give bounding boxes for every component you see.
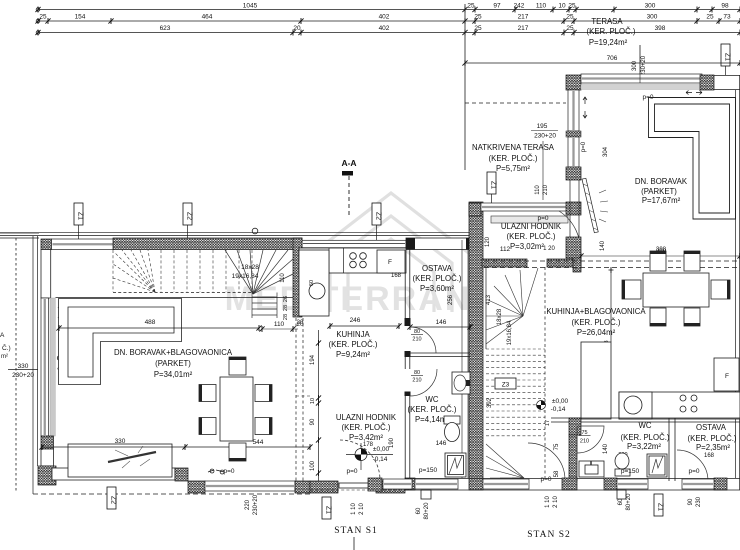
svg-text:623: 623 bbox=[160, 25, 171, 32]
sink circle bbox=[309, 283, 325, 299]
svg-text:KUHINJA: KUHINJA bbox=[336, 330, 370, 339]
svg-text:25: 25 bbox=[474, 14, 482, 21]
dim line x=611 bbox=[610, 268, 612, 342]
small circle node on top wall bbox=[252, 228, 258, 234]
svg-text:(KER. PLOČ.): (KER. PLOČ.) bbox=[342, 423, 391, 432]
svg-text:p=0: p=0 bbox=[581, 141, 587, 152]
svg-text:ULAZNI HODNIK: ULAZNI HODNIK bbox=[336, 413, 397, 422]
arrows S2 window left bbox=[583, 97, 587, 118]
tall unit / fridge S2 bbox=[581, 342, 611, 419]
svg-text:217: 217 bbox=[518, 14, 529, 21]
entry door S1 dashed swing bbox=[340, 440, 380, 480]
door arc ostava bbox=[410, 327, 436, 353]
small exterior stub bbox=[421, 490, 431, 499]
bottom wall hodnik S1 bbox=[310, 481, 338, 493]
svg-text:58: 58 bbox=[554, 470, 560, 477]
svg-text:1 20: 1 20 bbox=[543, 246, 555, 252]
door arc hodnik S2 bbox=[559, 211, 580, 256]
svg-text:256: 256 bbox=[448, 294, 454, 305]
svg-text:246: 246 bbox=[350, 317, 361, 324]
svg-text:25: 25 bbox=[39, 14, 47, 21]
neighbour wall stub top-left bbox=[0, 232, 39, 234]
svg-text:80: 80 bbox=[414, 370, 420, 376]
svg-text:(KER. PLOČ.): (KER. PLOČ.) bbox=[329, 340, 378, 349]
wall S1 left mid block bbox=[41, 436, 54, 449]
svg-text:26: 26 bbox=[283, 296, 289, 302]
svg-text:210: 210 bbox=[412, 378, 421, 384]
svg-text:DN. BORAVAK: DN. BORAVAK bbox=[635, 177, 688, 186]
svg-text:A: A bbox=[0, 332, 5, 339]
lintel label Z1 (left window) bbox=[74, 203, 84, 225]
svg-text:p=0: p=0 bbox=[346, 468, 357, 475]
svg-text:112: 112 bbox=[500, 246, 511, 253]
staircase S1 treads bbox=[113, 250, 252, 292]
window Z1 in S1 top wall bbox=[52, 239, 115, 250]
svg-text:p=0: p=0 bbox=[223, 468, 234, 475]
svg-text:398: 398 bbox=[656, 247, 667, 253]
svg-text:304: 304 bbox=[603, 146, 609, 157]
svg-text:90: 90 bbox=[310, 418, 316, 425]
washbasin S1 bbox=[452, 372, 470, 394]
svg-text:146: 146 bbox=[436, 440, 447, 447]
svg-text:Z3: Z3 bbox=[502, 382, 510, 389]
svg-text:Z2: Z2 bbox=[110, 496, 117, 504]
dimension line row 2 (25 154 464 402 / 25 217 25 300 25 73) bbox=[38, 20, 740, 22]
svg-text:154: 154 bbox=[75, 14, 86, 21]
lintel label Z2 bbox=[183, 203, 193, 225]
svg-text:19x16,84: 19x16,84 bbox=[232, 273, 259, 280]
svg-text:P=17,67m²: P=17,67m² bbox=[642, 196, 681, 205]
gallery edge dashed lines bbox=[484, 260, 740, 262]
svg-text:p=150: p=150 bbox=[621, 468, 640, 475]
svg-text:p=0: p=0 bbox=[540, 476, 551, 483]
svg-text:464: 464 bbox=[202, 14, 213, 21]
svg-text:140: 140 bbox=[600, 240, 606, 251]
dim 146 ostava bbox=[410, 326, 470, 328]
svg-text:230+20: 230+20 bbox=[534, 133, 556, 140]
svg-text:-0,14: -0,14 bbox=[551, 406, 566, 413]
window S2 top bbox=[581, 74, 702, 83]
svg-text:488: 488 bbox=[145, 319, 156, 326]
svg-text:413: 413 bbox=[486, 294, 492, 305]
entry door S2 frame bbox=[569, 180, 571, 237]
wall lines to right edge bbox=[714, 75, 740, 77]
svg-text:Č.): Č.) bbox=[2, 343, 11, 352]
hob S2 bbox=[680, 395, 686, 401]
svg-text:80: 80 bbox=[414, 329, 420, 335]
svg-text:330: 330 bbox=[18, 363, 29, 370]
svg-text:P=3,60m²: P=3,60m² bbox=[420, 284, 454, 293]
kitchen counter left column bbox=[299, 250, 329, 316]
insulation strip beside window bbox=[50, 298, 55, 436]
level marker S2 bbox=[537, 401, 546, 410]
window S1 bottom bbox=[205, 481, 295, 491]
staircase S1 winder fan left (dashed) bbox=[113, 250, 155, 292]
svg-text:P=2,35m²: P=2,35m² bbox=[696, 443, 730, 452]
svg-text:KUHINJA+BLAGOVAONICA: KUHINJA+BLAGOVAONICA bbox=[546, 307, 646, 316]
washbasin S2 bbox=[579, 461, 604, 477]
svg-text:1045: 1045 bbox=[243, 3, 258, 10]
svg-text:(KER. PLOČ.): (KER. PLOČ.) bbox=[587, 27, 636, 36]
svg-text:P=3,22m²: P=3,22m² bbox=[627, 442, 661, 451]
door swing p=0 living (arrows) bbox=[208, 469, 224, 474]
svg-text:110: 110 bbox=[535, 185, 541, 195]
party wall S1|S2 bbox=[469, 202, 483, 490]
svg-text:60: 60 bbox=[309, 280, 315, 286]
shaft lines S1 east bbox=[461, 240, 463, 478]
svg-text:392: 392 bbox=[487, 397, 493, 408]
right edge wall lines bbox=[735, 90, 737, 478]
svg-text:2 10: 2 10 bbox=[553, 496, 559, 508]
svg-text:P=34,01m²: P=34,01m² bbox=[154, 370, 193, 379]
svg-text:544: 544 bbox=[253, 439, 264, 446]
svg-text:p=0: p=0 bbox=[537, 215, 548, 222]
sink unit bbox=[619, 392, 652, 419]
svg-text:P=5,75m²: P=5,75m² bbox=[496, 164, 530, 173]
sofa L S2 bbox=[649, 98, 736, 220]
svg-text:P=26,04m²: P=26,04m² bbox=[577, 328, 616, 337]
svg-text:2 10: 2 10 bbox=[359, 503, 365, 515]
svg-text:110: 110 bbox=[280, 273, 286, 283]
wall block S2 left bbox=[566, 167, 581, 180]
svg-text:±0,00: ±0,00 bbox=[373, 446, 390, 453]
lintel label Z2 (kitchen) bbox=[372, 203, 382, 225]
svg-text:WC: WC bbox=[639, 421, 652, 430]
svg-text:Z1: Z1 bbox=[490, 181, 497, 189]
svg-text:230+20: 230+20 bbox=[12, 372, 34, 379]
staircase S2 upper winder bbox=[486, 268, 538, 344]
dining table S2 bbox=[643, 273, 709, 307]
counter S2 bbox=[619, 392, 740, 419]
svg-text:STAN S1: STAN S1 bbox=[334, 526, 377, 536]
svg-text:220: 220 bbox=[245, 499, 251, 510]
svg-text:300: 300 bbox=[632, 60, 638, 71]
svg-text:(KER. PLOČ.): (KER. PLOČ.) bbox=[572, 318, 621, 327]
svg-text:(KER. PLOČ.): (KER. PLOČ.) bbox=[413, 274, 462, 283]
door jamb blocks bbox=[405, 318, 411, 326]
wall S1 top (main) bbox=[113, 238, 302, 250]
inner wall band hodnik S2 bbox=[491, 216, 568, 223]
svg-text:(KER. PLOČ.): (KER. PLOČ.) bbox=[688, 434, 737, 443]
stair landing dashed edge bbox=[113, 292, 253, 294]
svg-text:217: 217 bbox=[518, 25, 529, 32]
staircase S2 treads bbox=[486, 349, 545, 436]
svg-text:m²: m² bbox=[1, 354, 8, 360]
svg-text:210: 210 bbox=[412, 337, 421, 343]
svg-text:80+20: 80+20 bbox=[424, 502, 430, 520]
door arc ostava S2 bbox=[677, 450, 708, 481]
svg-text:(PARKET): (PARKET) bbox=[641, 187, 677, 196]
svg-text:195: 195 bbox=[537, 123, 548, 130]
svg-text:110: 110 bbox=[274, 321, 285, 328]
rotated dims 300 / 230+20 near x=636 bbox=[639, 45, 641, 77]
window hodnik S2 bottom bbox=[483, 479, 529, 489]
lintel label Z1 top right bbox=[721, 44, 731, 66]
staircase S1 winder fan right (solid) bbox=[225, 250, 293, 294]
svg-text:168: 168 bbox=[391, 273, 402, 279]
level marker S1 bbox=[346, 454, 393, 456]
svg-text:146: 146 bbox=[436, 319, 447, 326]
svg-text:97: 97 bbox=[493, 3, 501, 10]
svg-text:210: 210 bbox=[580, 439, 589, 445]
svg-text:60: 60 bbox=[416, 507, 422, 514]
lintel label Z3 bbox=[495, 378, 516, 389]
dimension line row 3 (623 20 402 / 25 217 25 398) bbox=[38, 32, 740, 34]
dashed open edge below interior wall bbox=[295, 318, 297, 481]
svg-text:194: 194 bbox=[310, 354, 316, 365]
svg-text:20: 20 bbox=[296, 321, 304, 328]
door arc wc S2 bbox=[577, 426, 604, 453]
svg-text:25: 25 bbox=[467, 3, 475, 10]
svg-text:10: 10 bbox=[558, 3, 566, 10]
svg-text:140: 140 bbox=[603, 443, 609, 454]
svg-text:STAN S2: STAN S2 bbox=[527, 530, 570, 540]
svg-text:Z1: Z1 bbox=[657, 503, 664, 511]
svg-text:P=19,24m²: P=19,24m² bbox=[589, 38, 628, 47]
divider WC|OSTAVA bbox=[668, 418, 670, 481]
svg-text:1 10: 1 10 bbox=[545, 496, 551, 508]
svg-text:242: 242 bbox=[514, 3, 525, 10]
lintel label Z1 terasa bbox=[487, 172, 497, 194]
svg-text:OSTAVA: OSTAVA bbox=[696, 423, 727, 432]
kitchen dim chain vertical bbox=[318, 330, 320, 481]
svg-text:ULAZNI HODNIK: ULAZNI HODNIK bbox=[501, 222, 562, 231]
window band over kitchen S1 bbox=[302, 240, 406, 247]
dashed roof overhang line above terasa bbox=[465, 102, 566, 104]
svg-text:Z1: Z1 bbox=[325, 506, 332, 514]
bottom wall S1 wc bbox=[405, 478, 415, 490]
wall S2 wc left bbox=[569, 435, 577, 481]
staircase S2 lower winder bbox=[486, 444, 524, 478]
wall S1 left: upper section bbox=[41, 250, 51, 299]
svg-text:230+20: 230+20 bbox=[641, 55, 647, 76]
dim 398 S2 bbox=[581, 255, 740, 257]
svg-text:210: 210 bbox=[543, 184, 549, 195]
wall corner terasa/S2 bbox=[566, 202, 581, 215]
svg-text:706: 706 bbox=[607, 55, 618, 62]
natkrivena terasa top wall bbox=[469, 203, 481, 216]
svg-text:80+20: 80+20 bbox=[626, 493, 632, 511]
svg-text:300: 300 bbox=[645, 3, 656, 10]
svg-text:TERASA: TERASA bbox=[591, 17, 623, 26]
svg-text:75: 75 bbox=[554, 443, 560, 450]
door arc stairs bottom bbox=[528, 443, 565, 480]
lintel label Z1 bottom1 bbox=[322, 497, 332, 519]
sofa L-shape S1 (double outline) bbox=[59, 299, 182, 385]
svg-text:Z2: Z2 bbox=[375, 212, 382, 220]
svg-text:190: 190 bbox=[389, 437, 395, 448]
svg-text:P=3,02m²: P=3,02m² bbox=[510, 242, 544, 251]
fridge F bbox=[377, 250, 405, 273]
svg-text:(KER. PLOČ.): (KER. PLOČ.) bbox=[489, 154, 538, 163]
svg-text:(KER. PLOČ.): (KER. PLOČ.) bbox=[621, 433, 670, 442]
svg-text:1 10: 1 10 bbox=[351, 503, 357, 515]
svg-text:28: 28 bbox=[283, 305, 289, 311]
svg-text:402: 402 bbox=[379, 25, 390, 32]
svg-text:(PARKET): (PARKET) bbox=[155, 359, 191, 368]
svg-text:73: 73 bbox=[723, 14, 731, 21]
svg-text:60: 60 bbox=[618, 498, 624, 505]
wall S1 top-left corner bbox=[41, 239, 52, 250]
wall S1 bottom left bbox=[52, 468, 175, 480]
TV cabinet bbox=[68, 444, 172, 477]
svg-text:18x28: 18x28 bbox=[241, 264, 259, 271]
svg-text:P=9,24m²: P=9,24m² bbox=[336, 350, 370, 359]
svg-text:NATKRIVENA TERASA: NATKRIVENA TERASA bbox=[472, 143, 555, 152]
svg-text:17: 17 bbox=[545, 420, 551, 426]
washing machine S2 bbox=[647, 454, 667, 477]
boundary vertical line x=465 bbox=[464, 4, 466, 170]
svg-text:18x28: 18x28 bbox=[497, 308, 503, 325]
svg-text:WC: WC bbox=[426, 395, 439, 404]
svg-text:Z1: Z1 bbox=[724, 53, 731, 61]
dining table S1 bbox=[220, 377, 253, 441]
stair S2 boundary dashed bbox=[544, 267, 546, 478]
svg-text:330: 330 bbox=[115, 438, 126, 445]
bottom wall right part bbox=[405, 478, 740, 480]
svg-text:28: 28 bbox=[283, 314, 289, 320]
svg-text:(KER. PLOČ.): (KER. PLOČ.) bbox=[507, 232, 556, 241]
lintel label Z2 bottom bbox=[107, 487, 117, 509]
divider ostava/wc bbox=[410, 352, 470, 354]
svg-text:100: 100 bbox=[310, 460, 316, 471]
staircase S1 lower steps bbox=[252, 293, 277, 319]
door leaf S2 bbox=[582, 178, 598, 232]
svg-text:p=150: p=150 bbox=[419, 467, 438, 474]
svg-text:230+20: 230+20 bbox=[253, 494, 259, 515]
svg-text:402: 402 bbox=[379, 14, 390, 21]
wall S1 left lower bbox=[41, 449, 54, 466]
toilet S1 bbox=[444, 416, 460, 424]
wall block S2 left 2 bbox=[566, 237, 581, 258]
door sill hodnik S1 bbox=[339, 483, 379, 488]
left outer boundary lines bbox=[32, 236, 34, 494]
wall S2 top right block bbox=[700, 75, 714, 90]
hob 4 circles bbox=[350, 253, 357, 260]
svg-text:25: 25 bbox=[568, 3, 576, 10]
F box S2 bbox=[714, 358, 739, 391]
lintel label Z1 bottom2 bbox=[654, 494, 664, 516]
svg-text:300: 300 bbox=[647, 14, 658, 21]
watermark logo house chevron bbox=[312, 193, 470, 312]
svg-text:398: 398 bbox=[655, 25, 666, 32]
svg-text:25: 25 bbox=[566, 25, 574, 32]
svg-text:25: 25 bbox=[474, 25, 482, 32]
svg-text:p=0: p=0 bbox=[688, 468, 699, 475]
wall S1 interior vertical (kitchen/living) bbox=[293, 238, 302, 317]
svg-text:±0,00: ±0,00 bbox=[552, 398, 569, 405]
svg-text:F: F bbox=[725, 373, 729, 380]
dimension line row 1 (1045 / 25 97 242 110 10 25 300 98) bbox=[38, 9, 740, 11]
svg-text:25: 25 bbox=[706, 14, 714, 21]
kitchen counter top S1 bbox=[299, 248, 406, 273]
svg-text:F: F bbox=[388, 259, 392, 266]
svg-text:120: 120 bbox=[485, 236, 491, 247]
washing machine S1 bbox=[445, 453, 466, 477]
svg-text:98: 98 bbox=[721, 3, 729, 10]
svg-text:20: 20 bbox=[293, 25, 301, 32]
svg-text:110: 110 bbox=[536, 3, 547, 10]
svg-text:90: 90 bbox=[688, 498, 694, 505]
top wall outer facade double line bbox=[0, 232, 473, 234]
wall S2 top-left corner bbox=[566, 75, 581, 90]
svg-text:10: 10 bbox=[310, 398, 316, 404]
arrows beside left window bbox=[58, 305, 62, 320]
svg-text:230: 230 bbox=[696, 496, 702, 507]
partition wall S1 kitchen|ostava/wc (thin) bbox=[404, 250, 406, 319]
window S2 left upper bbox=[568, 90, 579, 131]
svg-text:(KER. PLOČ.): (KER. PLOČ.) bbox=[408, 405, 457, 414]
svg-text:Z2: Z2 bbox=[186, 212, 193, 220]
svg-text:168: 168 bbox=[704, 453, 715, 459]
dim 246 bbox=[330, 325, 399, 327]
svg-text:P=3,42m²: P=3,42m² bbox=[349, 433, 383, 442]
svg-text:19x16,84: 19x16,84 bbox=[507, 320, 513, 345]
window S1 left wall bbox=[41, 298, 49, 436]
dim line bottom room bbox=[42, 446, 310, 448]
bottom wall hodnik S2 bbox=[482, 259, 527, 267]
door arc wc S1 bbox=[410, 369, 437, 396]
dim 488 bbox=[59, 327, 259, 329]
svg-text:DN. BORAVAK+BLAGOVAONICA: DN. BORAVAK+BLAGOVAONICA bbox=[114, 348, 233, 357]
svg-text:A-A: A-A bbox=[341, 158, 356, 168]
wall S2 kitchen/wc bbox=[551, 417, 740, 419]
wall S1 bottom step bbox=[188, 481, 205, 493]
svg-text:OSTAVA: OSTAVA bbox=[422, 264, 453, 273]
svg-text:-0,14: -0,14 bbox=[373, 456, 388, 463]
svg-text:75: 75 bbox=[581, 430, 587, 436]
wall S1 top (ostava section, light) bbox=[406, 238, 473, 250]
svg-text:25: 25 bbox=[566, 14, 574, 21]
dimension line row 4 (706) bbox=[465, 62, 740, 64]
svg-text:Z1: Z1 bbox=[77, 212, 84, 220]
